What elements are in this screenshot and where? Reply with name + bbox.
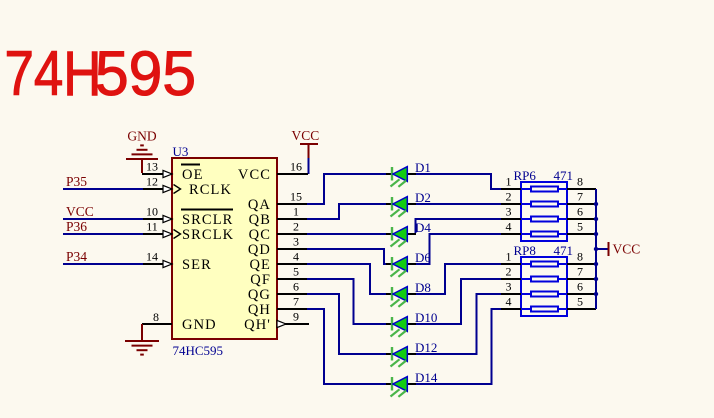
svg-text:RCLK: RCLK [189, 182, 232, 198]
svg-text:6: 6 [577, 280, 583, 294]
svg-text:QF: QF [250, 272, 271, 288]
VCC power symbol (right) [609, 242, 641, 257]
svg-text:8: 8 [577, 250, 583, 264]
RP6 pin 2 stub [501, 190, 521, 205]
svg-text:6: 6 [293, 280, 299, 294]
RP6 pin 8 stub [567, 175, 596, 190]
svg-text:GND: GND [182, 317, 217, 333]
svg-text:74H: 74H [5, 39, 102, 109]
ground (top, at pin 13) [126, 129, 158, 174]
pin 6 QG stub [277, 280, 307, 295]
svg-text:4: 4 [506, 295, 512, 309]
resistor element RP6-A [521, 187, 567, 192]
pin 7 QH stub [277, 295, 307, 310]
svg-text:12: 12 [146, 175, 158, 189]
svg-text:VCC: VCC [292, 128, 320, 143]
pin 5 QF stub [277, 265, 307, 280]
wire D6 to RP6 pin4 [416, 234, 501, 264]
svg-text:9: 9 [293, 310, 299, 324]
svg-text:SRCLR: SRCLR [182, 212, 233, 228]
pin 14 SER stub [142, 250, 172, 268]
LED D1 [386, 160, 431, 187]
svg-text:7: 7 [577, 265, 583, 279]
svg-text:471: 471 [554, 168, 574, 183]
LED D2 [386, 190, 431, 217]
svg-text:SER: SER [182, 257, 212, 273]
svg-text:QD: QD [248, 242, 271, 258]
svg-text:5: 5 [293, 265, 299, 279]
svg-text:7: 7 [577, 190, 583, 204]
svg-text:D8: D8 [415, 280, 431, 295]
wire D2 to RP6 pin2 [416, 203, 501, 205]
wire P35 to pin 12 [63, 188, 143, 190]
svg-text:GND: GND [127, 129, 156, 144]
wire P34 to pin 14 [63, 263, 143, 265]
pin 8 GND stub [142, 310, 172, 324]
pin 16 VCC stub [277, 160, 308, 175]
RP8 pin 6 stub [567, 280, 596, 295]
resistor element RP6-C [521, 217, 567, 222]
svg-text:14: 14 [146, 250, 158, 264]
RP8 pin 1 stub [501, 250, 521, 265]
LED D6 [386, 250, 431, 277]
svg-text:6: 6 [577, 205, 583, 219]
wire QB(1) to D2 [307, 204, 386, 219]
IC U3 74HC595 body [172, 158, 277, 339]
pin 12 RCLK stub [142, 175, 181, 194]
wire D10 to RP8 pin2 [416, 279, 501, 324]
svg-text:595: 595 [95, 39, 196, 109]
svg-text:471: 471 [554, 243, 574, 258]
svg-text:3: 3 [293, 235, 299, 249]
svg-text:74HC595: 74HC595 [173, 343, 224, 358]
resistor element RP8-A [521, 262, 567, 267]
wire QG(6) to D12 [307, 294, 386, 354]
svg-text:OE: OE [182, 167, 204, 183]
LED D8 [386, 280, 431, 307]
pin 11 SRCLK stub [142, 220, 181, 239]
RP8 pin 7 stub [567, 265, 596, 280]
svg-text:3: 3 [506, 205, 512, 219]
svg-text:QH': QH' [244, 317, 271, 333]
LED D14 [386, 370, 438, 397]
pin 10 SRCLR stub [142, 205, 172, 223]
svg-text:5: 5 [577, 295, 583, 309]
svg-text:15: 15 [290, 190, 302, 204]
junction at VCC tap [594, 247, 598, 251]
RP8 pin 2 stub [501, 265, 521, 280]
RP8 pin 3 stub [501, 280, 521, 295]
wire D14 to RP8 pin4 [416, 309, 501, 384]
svg-text:VCC: VCC [66, 204, 94, 219]
svg-text:11: 11 [146, 220, 158, 234]
resistor element RP6-B [521, 202, 567, 207]
RP8 pin 8 stub [567, 250, 596, 265]
RP8 pin 4 stub [501, 295, 521, 310]
resistor element RP8-C [521, 292, 567, 297]
pin 3 QD stub [277, 235, 307, 250]
svg-text:1: 1 [506, 175, 512, 189]
LED D12 [386, 340, 437, 367]
svg-text:5: 5 [577, 220, 583, 234]
svg-text:4: 4 [293, 250, 299, 264]
wire QC(2) to D4 [307, 233, 386, 235]
svg-text:10: 10 [146, 205, 158, 219]
wire QF(5) to D10 [307, 279, 386, 324]
resistor pack RP6 body [521, 182, 567, 241]
svg-text:VCC: VCC [613, 242, 641, 257]
svg-text:P34: P34 [66, 249, 87, 264]
ground (bottom, at pin 8) [125, 324, 159, 355]
resistor element RP8-D [521, 307, 567, 312]
svg-text:8: 8 [153, 310, 159, 324]
wire P36 to pin 11 [63, 233, 143, 235]
wire VCC to pin 10 [63, 218, 143, 220]
pin name OE with overline [181, 165, 204, 184]
svg-text:VCC: VCC [238, 167, 271, 183]
wire D4 to RP6 pin3 [416, 219, 502, 233]
wire D1 to RP6 pin1 [416, 174, 501, 189]
svg-text:8: 8 [577, 175, 583, 189]
svg-text:16: 16 [290, 160, 302, 174]
pin 4 QE stub [277, 250, 307, 265]
svg-text:D4: D4 [415, 220, 431, 235]
svg-text:QB: QB [249, 212, 271, 228]
RP6 pin 1 stub [501, 175, 521, 190]
resistor element RP6-D [521, 232, 567, 237]
pin 1 QB stub [277, 205, 307, 220]
svg-text:D1: D1 [415, 160, 431, 175]
svg-text:1: 1 [506, 250, 512, 264]
svg-text:P36: P36 [66, 219, 87, 234]
junction at RP6 pin 7 [594, 202, 598, 206]
pin 2 QC stub [277, 220, 307, 235]
svg-text:4: 4 [506, 220, 512, 234]
title 74HC595 [5, 39, 197, 109]
svg-text:QH: QH [248, 302, 271, 318]
LED D10 [386, 310, 437, 337]
svg-text:7: 7 [293, 295, 299, 309]
wire D8 to RP8 pin1 [416, 264, 501, 294]
junction at RP6 pin 6 [594, 217, 598, 221]
VCC power symbol (top, pin 16) [292, 128, 320, 174]
RP6 pin 3 stub [501, 205, 521, 220]
svg-text:2: 2 [506, 190, 512, 204]
svg-text:D14: D14 [415, 370, 438, 385]
junction at RP8 pin 7 [594, 277, 598, 281]
svg-text:1: 1 [293, 205, 299, 219]
svg-text:13: 13 [146, 160, 158, 174]
svg-text:U3: U3 [173, 144, 189, 159]
svg-text:RP8: RP8 [514, 243, 536, 258]
wire QE(4) to D8 [307, 264, 386, 294]
wire VCC tap [596, 248, 608, 250]
svg-text:D2: D2 [415, 190, 431, 205]
svg-text:D12: D12 [415, 340, 437, 355]
pin 15 QA stub [277, 190, 307, 205]
wire common bus to VCC [595, 189, 597, 309]
svg-text:RP6: RP6 [514, 168, 537, 183]
svg-text:2: 2 [506, 265, 512, 279]
resistor element RP8-B [521, 277, 567, 282]
svg-text:QG: QG [248, 287, 271, 303]
svg-text:QE: QE [249, 257, 271, 273]
svg-text:QC: QC [249, 227, 271, 243]
RP6 pin 5 stub [567, 220, 596, 235]
junction at RP8 pin 6 [594, 292, 598, 296]
RP6 pin 4 stub [501, 220, 521, 235]
pin name SRCLR with overline [181, 210, 233, 229]
svg-text:SRCLK: SRCLK [182, 227, 234, 243]
junction at RP6 pin 5 [594, 232, 598, 236]
RP6 pin 7 stub [567, 190, 596, 205]
svg-text:P35: P35 [66, 174, 87, 189]
LED D4 [386, 220, 431, 247]
pin 13 OE stub [142, 160, 172, 178]
wire D12 to RP8 pin3 [416, 294, 501, 354]
junction at RP8 pin 8 [594, 262, 598, 266]
wire QA(15) to D1 [307, 174, 386, 204]
pin 9 QH' stub with arrow [277, 310, 309, 328]
svg-text:2: 2 [293, 220, 299, 234]
wire QD(3) to D6 [307, 249, 386, 264]
resistor pack RP8 body [521, 257, 567, 316]
RP8 pin 5 stub [567, 295, 596, 310]
wire QH(7) to D14 [307, 309, 386, 384]
svg-text:3: 3 [506, 280, 512, 294]
RP6 pin 6 stub [567, 205, 596, 220]
svg-text:QA: QA [248, 197, 271, 213]
svg-text:D10: D10 [415, 310, 437, 325]
